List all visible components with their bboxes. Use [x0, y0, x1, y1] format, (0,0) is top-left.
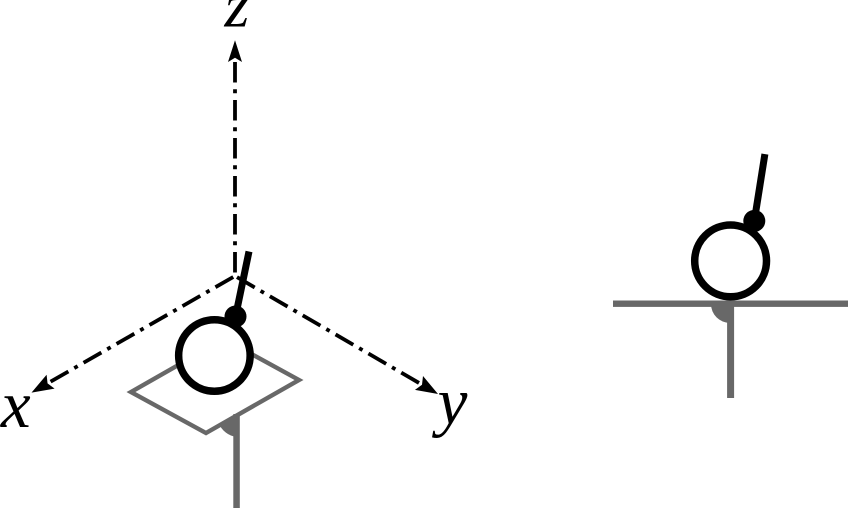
arrowhead y [415, 376, 438, 394]
axis y (dash-dot line) [235, 276, 419, 383]
arrowhead x [32, 375, 55, 393]
post (right figure) [727, 304, 734, 398]
arrowhead z [228, 40, 242, 62]
surface line (right figure) [613, 301, 848, 307]
spin stick (right figure) [754, 154, 765, 221]
axis x (dash-dot line) [51, 276, 235, 382]
post (support rod, left figure) [233, 414, 240, 508]
svg-text:x: x [0, 368, 31, 442]
axis z (dash-dot line) [233, 62, 237, 276]
spin stick (left figure) [236, 252, 250, 317]
gray foot bump (right figure) [711, 304, 730, 323]
platform (surface parallelogram, left figure) [131, 339, 299, 433]
svg-text:z: z [224, 0, 250, 41]
atom circle (left figure) [179, 320, 251, 392]
black bump on atom (right figure) [743, 210, 765, 232]
atom circle (right figure) [695, 225, 767, 297]
black bump on atom (left figure) [225, 306, 247, 328]
svg-text:y: y [432, 365, 468, 439]
gray foot bump (left figure) [220, 415, 239, 437]
